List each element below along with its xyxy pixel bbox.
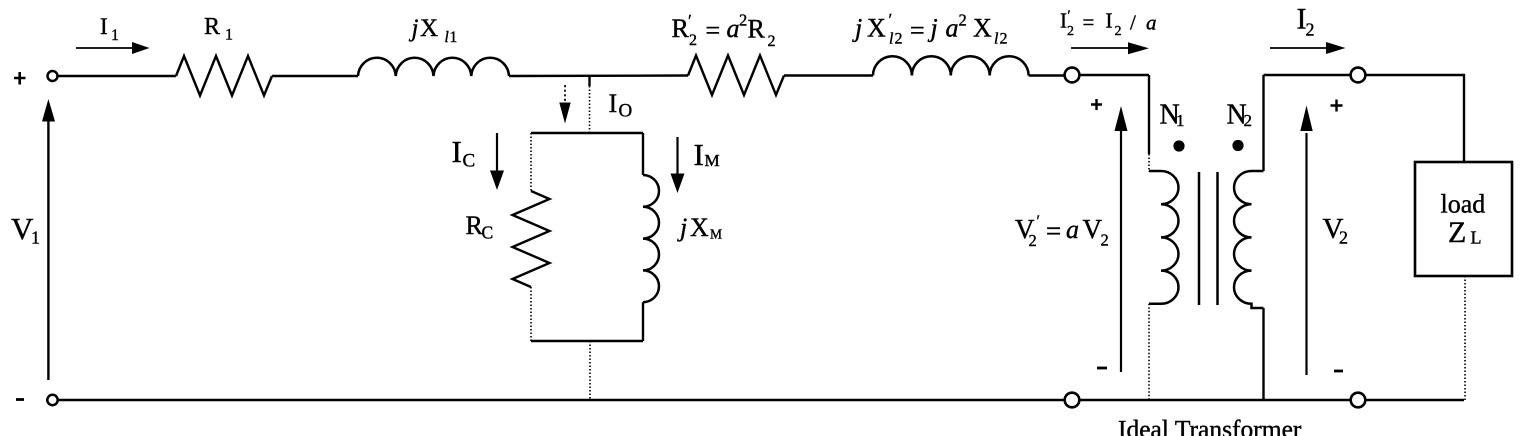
- svg-text:Ideal Transformer: Ideal Transformer: [1118, 415, 1302, 436]
- minus sign V1: [16, 398, 24, 401]
- voltage arrow V2p: [1115, 106, 1128, 372]
- svg-text:jX′l2=ja2Xl2: jX′l2=ja2Xl2: [852, 10, 1008, 48]
- wire terminal to transformer: [1080, 74, 1150, 76]
- wire terminal to load corner: [1366, 75, 1465, 162]
- box bottom edge: [531, 340, 643, 342]
- svg-text:2: 2: [1244, 111, 1253, 130]
- bottom wire middle: [1080, 399, 1351, 401]
- transformer secondary lead bottom: [1262, 308, 1264, 400]
- wire R1 to L1: [272, 75, 358, 77]
- transformer secondary winding: [1234, 171, 1264, 308]
- transformer primary dotted drop: [1148, 304, 1150, 400]
- svg-text:R′2=a2R2: R′2=a2R2: [672, 11, 776, 51]
- current arrow I2p: [1071, 42, 1149, 54]
- svg-text:2: 2: [1339, 228, 1348, 248]
- minus sign V2: [1334, 370, 1343, 373]
- terminal node bottom-left: [47, 395, 57, 405]
- load box ZL: [1415, 162, 1512, 276]
- transformer core line right: [1216, 172, 1219, 305]
- svg-text:1: 1: [1176, 111, 1185, 130]
- minus sign V2p: [1097, 367, 1107, 370]
- wire top-left: [58, 75, 177, 77]
- svg-text:C: C: [463, 151, 476, 172]
- svg-text:load: load: [1441, 190, 1486, 219]
- dotted drop from box to bottom wire: [589, 341, 591, 400]
- terminal node top-left: [48, 71, 58, 81]
- svg-text:I′2=I2/a: I′2=I2/a: [1060, 9, 1157, 40]
- svg-text:1: 1: [450, 29, 458, 46]
- inductor L2 jXl2: [873, 56, 1029, 75]
- resistor RC: [513, 191, 550, 287]
- current arrow I2: [1270, 42, 1346, 54]
- svg-text:Z: Z: [1448, 216, 1466, 249]
- svg-text:1: 1: [31, 228, 40, 248]
- svg-text:l: l: [445, 29, 449, 46]
- svg-text:O: O: [619, 101, 633, 122]
- transformer primary winding: [1149, 171, 1179, 304]
- svg-text:M: M: [705, 151, 720, 170]
- wire R2p to L2: [784, 74, 873, 76]
- plus sign V1 positive terminal: [14, 72, 26, 85]
- transformer primary lead solid: [1148, 75, 1150, 154]
- terminal node top-right: [1351, 68, 1366, 83]
- terminal node bottom-mid: [1065, 393, 1080, 408]
- dotted riser to magnetizing branch: [589, 86, 591, 133]
- wire L2 to terminal: [1029, 74, 1065, 76]
- svg-text:I: I: [694, 137, 704, 172]
- polarity dot secondary: [1232, 140, 1243, 151]
- box right lower: [642, 302, 644, 341]
- transformer secondary lead top: [1262, 75, 1264, 171]
- current arrow IM: [671, 137, 685, 193]
- magnetizing box top edge: [531, 132, 643, 134]
- svg-text:R: R: [204, 14, 220, 40]
- svg-text:V′2=aV2: V′2=aV2: [1015, 213, 1109, 250]
- wire L1 to R2p with shunt junction: [509, 74, 688, 77]
- plus sign V2p: [1091, 99, 1102, 110]
- current arrow IC: [490, 133, 504, 190]
- bottom wire left: [58, 399, 1065, 401]
- box left dotted upper: [530, 133, 532, 191]
- resistor R2p: [688, 56, 784, 96]
- voltage arrow V1: [42, 99, 55, 380]
- svg-text:M: M: [710, 227, 722, 242]
- box left dotted lower: [530, 287, 532, 341]
- svg-text:C: C: [482, 223, 494, 243]
- inductor L1 jXl1: [358, 58, 509, 76]
- svg-text:I: I: [452, 134, 462, 169]
- voltage arrow V2: [1300, 106, 1312, 376]
- dotted wire load to bottom: [1464, 276, 1466, 400]
- current arrow IO dashed: [559, 85, 570, 124]
- bottom wire right: [1366, 399, 1465, 401]
- shunt junction stub: [588, 76, 590, 86]
- svg-text:I: I: [100, 14, 108, 39]
- svg-text:j: j: [677, 213, 687, 242]
- terminal node mid-top: [1065, 68, 1080, 83]
- wire transformer secondary to terminal: [1264, 74, 1351, 76]
- svg-text:I: I: [609, 89, 618, 118]
- svg-text:X: X: [690, 213, 709, 242]
- transformer core line left: [1198, 172, 1201, 305]
- plus sign V2: [1331, 100, 1343, 112]
- svg-text:1: 1: [225, 27, 233, 44]
- svg-text:X: X: [420, 15, 438, 42]
- resistor R1: [176, 56, 272, 96]
- svg-text:L: L: [1471, 228, 1482, 248]
- current arrow I1: [76, 42, 150, 54]
- svg-text:1: 1: [111, 27, 119, 44]
- box right upper: [642, 133, 644, 175]
- terminal node bottom-right: [1351, 393, 1366, 408]
- polarity dot primary: [1173, 140, 1184, 151]
- svg-text:2: 2: [1306, 20, 1315, 40]
- transformer primary lead dotted: [1148, 154, 1150, 172]
- inductor XM: [643, 175, 659, 302]
- svg-text:j: j: [409, 15, 419, 42]
